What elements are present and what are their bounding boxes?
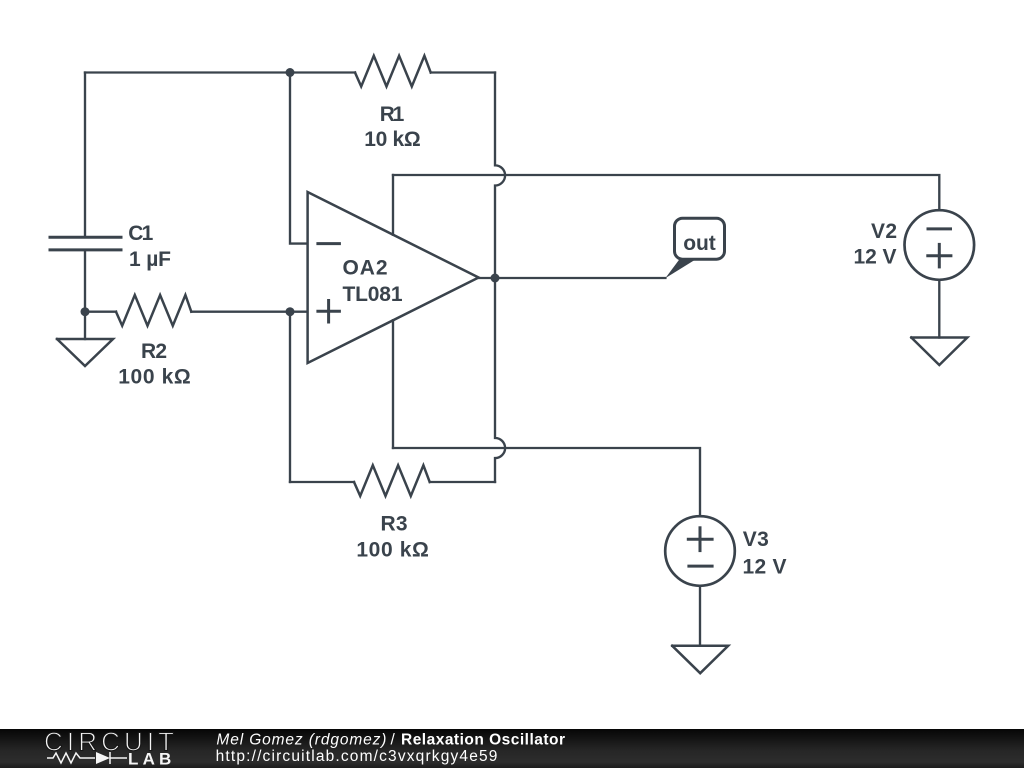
footer logo schematic glyph (47, 752, 127, 764)
V3 plus sign (688, 528, 712, 551)
svg-text:Mel Gomez (rdgomez): Mel Gomez (rdgomez) (216, 731, 386, 748)
node: output junction (491, 274, 500, 283)
resistor R3 (354, 465, 430, 496)
svg-text:R1: R1 (380, 103, 405, 126)
node: noninverting/R3 junction (286, 307, 295, 316)
wire op-amp output (479, 277, 666, 279)
svg-text:LAB: LAB (128, 750, 176, 768)
op-amp plus sign (318, 301, 340, 323)
svg-text:10 kΩ: 10 kΩ (364, 128, 421, 151)
svg-text:/: / (391, 731, 396, 748)
node: R1/C1/inverting junction (286, 68, 295, 77)
wire V3 to ground (699, 586, 701, 646)
wire R3 left (290, 481, 354, 483)
node: C1/R2/ground junction (81, 307, 90, 316)
voltage source V2 (905, 210, 975, 280)
svg-text:V2: V2 (871, 220, 897, 243)
wire R1 right (431, 71, 495, 73)
wire R2 right to op-amp (191, 311, 307, 313)
svg-text:C1: C1 (128, 222, 153, 245)
wire inverting input (290, 73, 308, 244)
out flag box (675, 218, 725, 259)
svg-text:R3: R3 (381, 513, 408, 536)
wire bottom rail to V3 (393, 448, 700, 516)
op-amp OA2 (308, 192, 479, 363)
svg-text:Relaxation Oscillator: Relaxation Oscillator (401, 731, 565, 748)
ground (V3) (672, 646, 728, 673)
svg-text:R2: R2 (141, 340, 167, 363)
svg-text:1 µF: 1 µF (129, 248, 171, 271)
svg-text:12 V: 12 V (854, 245, 897, 268)
wire C1 top vertical (84, 73, 86, 236)
wire C1 bottom (84, 251, 86, 311)
wire top-left horizontal (85, 71, 355, 73)
svg-text:100 kΩ: 100 kΩ (356, 538, 429, 561)
V2 plus sign (928, 244, 951, 267)
wire R3 right (430, 481, 495, 483)
wire vertical x495 upper with hop (495, 73, 505, 279)
wire V- power pin (392, 320, 394, 448)
svg-text:100 kΩ: 100 kΩ (118, 365, 191, 388)
svg-text:out: out (683, 232, 716, 255)
resistor R1 (355, 56, 431, 87)
capacitor C1 (50, 237, 121, 250)
wire to ground 1 (84, 312, 86, 339)
wire top rail to V2 (393, 175, 939, 210)
op-amp minus sign (318, 242, 340, 245)
wire R2 left (85, 311, 116, 313)
ground (C1/R2 node) (57, 339, 113, 366)
wire V+ power pin (392, 175, 394, 235)
V3 minus sign (689, 565, 712, 568)
svg-text:12 V: 12 V (743, 556, 787, 579)
voltage source V3 (665, 516, 735, 586)
svg-text:V3: V3 (743, 528, 769, 551)
footer bar (0, 729, 1024, 768)
wire vertical x495 lower with hop (495, 278, 505, 482)
wire V2 to ground (938, 280, 940, 338)
ground (V2) (911, 338, 967, 366)
svg-text:TL081: TL081 (343, 283, 403, 306)
out flag pointer (665, 258, 698, 278)
resistor R2 (116, 295, 191, 326)
V2 minus sign (928, 227, 951, 230)
svg-text:OA2: OA2 (343, 256, 388, 279)
wire vertical x290 noninverting branch (289, 312, 291, 482)
svg-text:http://circuitlab.com/c3vxqrkg: http://circuitlab.com/c3vxqrkgy4e59 (216, 748, 498, 765)
